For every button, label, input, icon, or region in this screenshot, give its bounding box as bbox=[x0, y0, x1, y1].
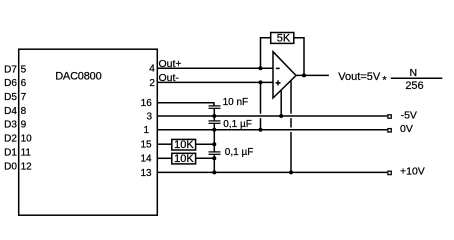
svg-text:13: 13 bbox=[140, 168, 152, 179]
svg-text:0,1 µF: 0,1 µF bbox=[225, 147, 254, 158]
svg-text:DAC0800: DAC0800 bbox=[55, 71, 101, 83]
wire pin4 Out+ to op-amp inverting input bbox=[157, 67, 273, 69]
svg-text:12: 12 bbox=[21, 161, 33, 172]
junction dot C1/C2 at V- rail bbox=[212, 114, 216, 118]
svg-text:D6: D6 bbox=[4, 78, 17, 89]
svg-text:-5V: -5V bbox=[401, 109, 417, 121]
op-amp positive supply pin down to +10V rail (gaps at crossings) bbox=[290, 80, 292, 172]
wire resistor R3 to capacitor column bbox=[196, 157, 215, 159]
junction dot non-inverting input branch bbox=[259, 80, 263, 84]
svg-text:D7: D7 bbox=[4, 64, 17, 75]
svg-text:9: 9 bbox=[21, 120, 27, 131]
DAC0800 IC body U1 bbox=[19, 49, 158, 215]
resistor R3 10K body bbox=[172, 153, 196, 164]
resistor R2 10K body bbox=[172, 139, 196, 150]
junction dot cap column at pin14 bbox=[212, 156, 216, 160]
capacitor C2 0.1uF bbox=[209, 116, 221, 130]
svg-text:Out+: Out+ bbox=[159, 58, 182, 70]
svg-text:Vout=5V: Vout=5V bbox=[338, 71, 381, 83]
feedback wire from resistor R1 down to output bbox=[294, 38, 304, 76]
svg-text:4: 4 bbox=[149, 64, 155, 75]
feedback wire from inverting input up to resistor R1 bbox=[261, 38, 271, 69]
svg-text:5: 5 bbox=[21, 64, 27, 75]
op-amp U2 triangle bbox=[273, 52, 296, 98]
wire pin14 to resistor R3 bbox=[157, 157, 172, 159]
svg-text:D3: D3 bbox=[4, 120, 17, 131]
svg-text:10K: 10K bbox=[174, 153, 194, 165]
svg-text:14: 14 bbox=[140, 154, 152, 165]
svg-text:+10V: +10V bbox=[400, 166, 425, 178]
junction dot C2 at 0V rail bbox=[212, 128, 216, 132]
junction dot 0V rail at x=260 bbox=[259, 128, 263, 132]
svg-text:10 nF: 10 nF bbox=[223, 97, 249, 108]
svg-text:*: * bbox=[382, 74, 387, 86]
wire cap column pin1 to pin15 bbox=[213, 130, 215, 144]
svg-text:Out-: Out- bbox=[159, 72, 180, 84]
fraction bar N/256 bbox=[391, 77, 443, 79]
svg-text:D4: D4 bbox=[4, 106, 17, 117]
wire non-inverting input down to 0V rail (gap at V- rail crossing) bbox=[260, 82, 262, 129]
svg-text:D2: D2 bbox=[4, 134, 17, 145]
svg-text:0,1 µF: 0,1 µF bbox=[223, 119, 252, 130]
capacitor C1 10nF bbox=[209, 106, 221, 116]
junction dot inverting input / feedback bbox=[259, 66, 263, 70]
junction dot op-amp output / feedback bbox=[302, 73, 306, 77]
op-amp minus input symbol bbox=[276, 67, 280, 69]
svg-text:D0: D0 bbox=[4, 161, 17, 172]
svg-text:7: 7 bbox=[21, 92, 27, 103]
svg-text:16: 16 bbox=[141, 98, 153, 109]
svg-text:2: 2 bbox=[149, 78, 155, 89]
svg-text:5K: 5K bbox=[277, 33, 291, 45]
junction dot cap column at +10V rail bbox=[212, 170, 216, 174]
wire resistor R2 to capacitor column bbox=[196, 143, 215, 145]
wire pin13 V+ rail to +10V terminal bbox=[157, 171, 387, 173]
wire pin3 V- rail to -5V terminal bbox=[157, 115, 387, 117]
svg-text:10: 10 bbox=[21, 134, 33, 145]
svg-text:10K: 10K bbox=[174, 139, 194, 151]
svg-text:D1: D1 bbox=[4, 147, 17, 158]
capacitor C3 0.1uF bbox=[209, 144, 221, 158]
svg-text:N: N bbox=[410, 67, 418, 79]
wire pin2 Out- to op-amp non-inverting input bbox=[157, 81, 273, 83]
op-amp output wire bbox=[296, 74, 329, 76]
svg-text:D5: D5 bbox=[4, 92, 17, 103]
svg-text:0V: 0V bbox=[400, 123, 413, 135]
terminal -5V bbox=[388, 115, 391, 118]
svg-text:3: 3 bbox=[146, 111, 152, 122]
junction dot cap column at pin15 bbox=[212, 142, 216, 146]
svg-text:11: 11 bbox=[21, 147, 32, 158]
op-amp negative supply pin to V- rail bbox=[280, 90, 282, 116]
wire pin1 VLC rail to 0V terminal bbox=[157, 129, 387, 131]
svg-text:8: 8 bbox=[21, 106, 27, 117]
svg-text:6: 6 bbox=[21, 78, 27, 89]
wire cap column pin14 to pin13 bbox=[213, 158, 215, 172]
terminal +10V bbox=[388, 171, 391, 174]
wire pin15 to resistor R2 bbox=[157, 143, 172, 145]
svg-text:15: 15 bbox=[140, 140, 152, 151]
resistor R1 5K body bbox=[271, 33, 294, 44]
wire pin16 COMP to 10nF capacitor bbox=[157, 103, 214, 106]
svg-text:1: 1 bbox=[143, 125, 149, 136]
junction dot V- rail at op-amp supply bbox=[279, 114, 283, 118]
terminal 0V bbox=[388, 129, 391, 132]
svg-text:256: 256 bbox=[405, 80, 423, 92]
junction dot +10V rail at op-amp supply bbox=[289, 170, 293, 174]
op-amp plus input symbol bbox=[276, 80, 281, 85]
